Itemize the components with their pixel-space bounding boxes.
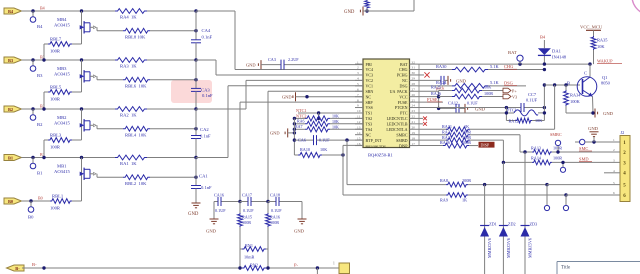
svg-text:100R: 100R (50, 145, 61, 150)
svg-text:RA12: RA12 (509, 118, 519, 123)
svg-text:100R: 100R (50, 206, 61, 211)
svg-text:SMBD: SMBD (396, 138, 407, 143)
svg-text:VC2: VC2 (366, 78, 374, 83)
svg-text:15: 15 (357, 136, 361, 140)
svg-text:12: 12 (357, 120, 361, 124)
svg-text:10K: 10K (332, 114, 339, 119)
svg-text:5: 5 (357, 82, 359, 86)
svg-text:SMD: SMD (579, 156, 589, 161)
capacitor CA12 0.1UF (437, 101, 486, 113)
svg-text:MMBZ5V6: MMBZ5V6 (528, 238, 533, 258)
svg-text:1K: 1K (464, 124, 469, 129)
svg-text:RA14: RA14 (531, 156, 542, 161)
svg-text:0.1UF: 0.1UF (319, 138, 330, 143)
svg-text:TS2: TS2 (366, 116, 373, 121)
title block (557, 262, 640, 274)
op-amp U1 BQ40Z50-R1 body (363, 59, 410, 158)
resistor RA32 100R (418, 129, 521, 137)
wire VCC to divider (418, 91, 441, 109)
svg-text:IN4148: IN4148 (552, 55, 567, 60)
svg-text:5.1K: 5.1K (490, 80, 499, 85)
ground at J2 pin1 (588, 126, 599, 142)
resistor RBL5 100R (42, 85, 81, 111)
svg-text:3: 3 (613, 159, 615, 163)
svg-text:MMBZ5V6: MMBZ5V6 (506, 238, 511, 258)
svg-text:LEDCNTLB: LEDCNTLB (387, 122, 408, 127)
svg-text:BTP_INT: BTP_INT (366, 138, 383, 143)
svg-text:100K: 100K (570, 99, 581, 104)
svg-text:RA25: RA25 (431, 85, 441, 90)
capacitor CC7 0.1UF on PTCEN (418, 92, 547, 112)
U1 pin stubs (355, 64, 419, 145)
ground right of CA18 (280, 202, 307, 234)
svg-text:14: 14 (357, 131, 361, 135)
svg-text:RBL1: RBL1 (52, 194, 64, 199)
svg-text:AO3415: AO3415 (54, 22, 71, 27)
svg-text:DSG: DSG (504, 81, 514, 86)
svg-text:B4: B4 (8, 9, 14, 14)
svg-text:CC7: CC7 (528, 92, 537, 97)
svg-text:32: 32 (412, 60, 416, 64)
U1 pin numbers (357, 60, 415, 145)
wire bottom rail (22, 266, 339, 269)
svg-text:10: 10 (357, 109, 361, 113)
node SMBD circle (560, 161, 565, 173)
svg-text:DA1: DA1 (552, 49, 562, 54)
node B4 pin circle (30, 9, 43, 29)
svg-text:CA1: CA1 (199, 174, 208, 179)
resistor RA14 100R (531, 156, 620, 165)
ground at pin7 (282, 92, 363, 101)
svg-text:PTCEN: PTCEN (395, 105, 408, 110)
node test point on pin6 wire (563, 195, 568, 211)
svg-text:RA15: RA15 (242, 215, 252, 220)
resistor RA7 10K on TS3 (293, 119, 363, 129)
resistor RBL6 10K (97, 77, 198, 88)
svg-text:NC: NC (402, 78, 408, 83)
transistor MB2 AO3415 (54, 107, 97, 140)
svg-text:13: 13 (357, 125, 361, 129)
wire SMBC routing (520, 135, 532, 152)
resistor RA24 5.1K on DSG (418, 80, 527, 88)
wire top gnd to right (367, 0, 414, 11)
svg-text:MB3: MB3 (57, 66, 67, 71)
node B1 pin circle (30, 156, 43, 176)
svg-text:P-: P- (294, 263, 299, 268)
no-connect X pin30 (418, 72, 430, 77)
wire TS1 (298, 111, 363, 120)
svg-text:VC3: VC3 (366, 73, 374, 78)
svg-text:10K: 10K (484, 85, 491, 90)
svg-text:GND: GND (206, 229, 217, 234)
net label WAKUP (597, 58, 622, 63)
svg-text:CA16: CA16 (214, 193, 224, 198)
transistor MB3 AO3415 (54, 58, 97, 92)
wire B3 bus to VC3 (196, 60, 363, 75)
svg-text:100R: 100R (462, 135, 471, 140)
svg-text:RBL8 10K: RBL8 10K (125, 34, 146, 39)
capacitor CA2 (191, 109, 211, 159)
svg-text:CA2: CA2 (200, 127, 209, 132)
svg-text:24: 24 (412, 104, 416, 108)
resistor RA16 100R (266, 202, 280, 269)
no-connect X pin21 (418, 122, 427, 126)
resistor RN2 on rail (242, 262, 266, 270)
svg-text:8050: 8050 (601, 81, 611, 86)
svg-text:31: 31 (412, 66, 416, 70)
svg-text:B-: B- (32, 262, 37, 267)
svg-text:PTC1: PTC1 (507, 108, 517, 113)
wire Q1 base (543, 83, 580, 107)
svg-text:100R: 100R (462, 129, 471, 134)
svg-text:RA9: RA9 (440, 197, 448, 202)
svg-text:19: 19 (412, 131, 416, 135)
svg-text:TS4: TS4 (366, 127, 373, 132)
node B3 pin circle (30, 58, 43, 78)
ground under CA1 (188, 203, 201, 217)
svg-text:DISP: DISP (399, 143, 408, 148)
svg-text:RA35: RA35 (597, 38, 608, 43)
resistor RA33 100R (418, 135, 504, 143)
resistor RA6 10K on TS2 (293, 114, 363, 124)
capacitor CA16 0.1UF (214, 193, 240, 213)
svg-text:BAT: BAT (400, 62, 408, 67)
svg-text:TS1: TS1 (366, 111, 373, 116)
zener diode ZD2 MMBZ5V6 (499, 162, 516, 274)
svg-text:11: 11 (357, 115, 361, 119)
svg-text:GND: GND (246, 62, 256, 67)
resistor RA3 (115, 58, 147, 69)
svg-text:1: 1 (357, 60, 359, 64)
ground in TS network (270, 118, 296, 155)
svg-text:RA13: RA13 (531, 145, 541, 150)
svg-text:AO3415: AO3415 (54, 120, 71, 125)
svg-text:200R: 200R (462, 178, 471, 183)
svg-text:FUSE: FUSE (398, 100, 408, 105)
svg-text:SMBC: SMBC (396, 132, 407, 137)
svg-text:RA1 1K: RA1 1K (120, 161, 137, 166)
svg-text:VC4: VC4 (366, 67, 374, 72)
wire J2 pin4 stub (604, 172, 620, 174)
svg-text:9: 9 (357, 104, 359, 108)
resistor RN1 10mR (242, 243, 266, 260)
node BAT test point (508, 50, 523, 64)
svg-text:MB2: MB2 (57, 115, 67, 120)
port B1 (4, 155, 22, 161)
resistor RA1 (115, 155, 147, 166)
svg-text:GND: GND (270, 131, 280, 136)
port B2 (4, 106, 22, 112)
svg-text:16: 16 (357, 142, 361, 146)
svg-text:100R: 100R (484, 91, 493, 96)
svg-text:2: 2 (357, 66, 359, 70)
svg-text:NC: NC (366, 94, 372, 99)
svg-text:VCC_MCU: VCC_MCU (580, 24, 603, 29)
svg-text:10K: 10K (332, 124, 339, 129)
wire BAT net (418, 62, 592, 65)
svg-text:DISP: DISP (481, 142, 490, 147)
net label NTC2 (296, 114, 306, 119)
svg-text:WAKUP: WAKUP (597, 58, 613, 63)
svg-text:10K: 10K (332, 119, 339, 124)
svg-text:RBL6 10K: RBL6 10K (125, 83, 147, 88)
svg-text:CA3: CA3 (268, 57, 276, 62)
resistor RA4 (115, 9, 147, 20)
svg-text:CA3: CA3 (201, 87, 210, 92)
svg-text:GND: GND (603, 111, 614, 116)
svg-text:PRES/SHUTDN: PRES/SHUTDN (366, 144, 387, 148)
svg-text:RA30: RA30 (436, 64, 447, 69)
net label SMC (579, 146, 592, 151)
svg-text:CHG: CHG (399, 67, 408, 72)
svg-text:10K: 10K (597, 44, 605, 49)
svg-text:B0: B0 (28, 215, 34, 220)
resistor RA26 100R to V3 (431, 91, 503, 99)
svg-text:CA17: CA17 (242, 193, 252, 198)
capacitor CA17 0.1UF (238, 193, 268, 213)
transistor MB1 AO3415 (54, 156, 97, 201)
port B- (7, 265, 25, 271)
svg-text:B4: B4 (37, 24, 43, 29)
svg-text:0.1UF: 0.1UF (526, 97, 538, 102)
wire RA8 row to J2 pin5 (547, 184, 620, 186)
svg-text:18: 18 (412, 136, 416, 140)
ground left of CA16 (206, 202, 219, 234)
capacitor CA6 0.1UF on BTP_INT (293, 135, 363, 145)
svg-text:SRP: SRP (366, 100, 374, 105)
svg-text:MMBZ5V6: MMBZ5V6 (487, 238, 492, 258)
svg-text:ZD3: ZD3 (530, 221, 538, 226)
svg-text:20: 20 (412, 125, 416, 129)
wire SRN (268, 91, 363, 201)
resistor RBL8 10K (97, 28, 198, 39)
svg-text:RBL3: RBL3 (50, 133, 62, 138)
zener diode ZD1 MMBZ5V6 (480, 185, 497, 274)
svg-text:100R: 100R (50, 49, 61, 54)
net label B- (32, 262, 37, 267)
wire drop to RA8 (346, 140, 348, 185)
svg-text:RBL4 10K: RBL4 10K (125, 132, 147, 137)
svg-text:100R: 100R (553, 156, 562, 161)
svg-text:Q1: Q1 (602, 75, 607, 80)
svg-text:6: 6 (613, 191, 615, 195)
svg-text:BQ40Z50-R1: BQ40Z50-R1 (368, 153, 393, 158)
svg-text:NTC1: NTC1 (296, 108, 306, 113)
svg-text:RA6: RA6 (297, 119, 305, 124)
wire SMBD routing (502, 140, 532, 164)
svg-text:CA6: CA6 (298, 138, 306, 143)
svg-text:B-: B- (15, 266, 20, 271)
ground top (344, 7, 369, 16)
wire B4 bus to VC4 (196, 11, 363, 70)
resistor RA13 100R (523, 145, 620, 154)
capacitor at pin29 with ground (418, 76, 467, 85)
annotation arc (632, 0, 640, 15)
svg-text:NC: NC (366, 132, 372, 137)
net label B2 (40, 103, 45, 108)
transistor MB4 AO3415 (54, 9, 97, 44)
svg-text:B: B (567, 80, 570, 85)
net label B1 (40, 152, 45, 157)
svg-text:100R: 100R (50, 97, 61, 102)
svg-text:0.1nF: 0.1nF (201, 185, 212, 190)
svg-text:B0: B0 (38, 195, 43, 200)
svg-text:RA31: RA31 (442, 124, 452, 129)
svg-text:3: 3 (357, 71, 359, 75)
svg-text:8: 8 (357, 98, 359, 102)
net label DISP (479, 142, 495, 148)
node test point on pin5 wire (544, 185, 549, 211)
svg-text:RBL2 10K: RBL2 10K (125, 181, 147, 186)
diode DA1 IN4148 (538, 35, 567, 66)
svg-text:DSG: DSG (399, 84, 407, 89)
resistor RA30 5.1K on CHG (418, 64, 547, 72)
svg-text:MB4: MB4 (57, 17, 67, 22)
svg-text:RA32: RA32 (442, 129, 452, 134)
svg-text:RA36: RA36 (440, 140, 450, 145)
svg-text:B2: B2 (8, 107, 13, 112)
port B0 (4, 198, 22, 204)
svg-text:0.1nF: 0.1nF (200, 133, 211, 138)
svg-text:1: 1 (333, 262, 335, 266)
port B4 (4, 8, 22, 14)
resistor RA34 100K (564, 85, 593, 113)
svg-text:VSS: VSS (366, 105, 373, 110)
svg-text:GND: GND (456, 78, 467, 83)
svg-text:RN2: RN2 (250, 262, 258, 267)
resistor RBL3 100R (42, 133, 81, 160)
svg-text:100R: 100R (462, 140, 471, 145)
svg-text:RA2 1K: RA2 1K (120, 112, 137, 117)
ground at Q1 emitter (591, 97, 613, 118)
svg-text:B4: B4 (40, 5, 45, 10)
svg-text:GND: GND (282, 95, 292, 100)
svg-text:RA10: RA10 (300, 147, 310, 152)
thermistor PTC1 with resistor RA12 10K (418, 108, 547, 124)
svg-text:P+: P+ (512, 88, 517, 93)
svg-text:10K: 10K (320, 147, 327, 152)
zener diode ZD3 MMBZ5V6 (521, 152, 538, 274)
svg-text:30: 30 (412, 71, 416, 75)
resistor RA25 10K to P+ (431, 85, 503, 93)
svg-text:RA26: RA26 (431, 91, 441, 96)
svg-text:29: 29 (412, 77, 416, 81)
power VCC_MCU (580, 24, 603, 36)
svg-text:27: 27 (412, 87, 416, 91)
net label DSG (504, 81, 517, 86)
wire B1 bus to VC1 (196, 86, 363, 158)
connector pad bottom (317, 262, 349, 274)
svg-text:AO3415: AO3415 (54, 71, 71, 76)
svg-text:RA8: RA8 (440, 178, 448, 183)
capacitor CA4 (191, 9, 213, 61)
svg-text:RA4 1K: RA4 1K (120, 14, 137, 19)
svg-text:21: 21 (412, 120, 416, 124)
wire row B3 (22, 59, 197, 61)
net label pack (418, 86, 446, 92)
net label B0 (38, 195, 43, 200)
net label SMD (579, 156, 592, 161)
svg-text:25: 25 (412, 98, 416, 102)
wire RA9 row to J2 pin6 (566, 194, 620, 196)
wire row B4 (22, 10, 197, 12)
svg-text:0.1UF: 0.1UF (215, 208, 226, 213)
svg-text:B4: B4 (540, 35, 546, 40)
resistor RBL4 10K (97, 126, 198, 137)
port V3 (503, 94, 517, 99)
svg-text:SRN: SRN (366, 89, 374, 94)
svg-text:Title: Title (561, 266, 571, 271)
wire drop to RA9 (342, 155, 344, 195)
resistor RA2 (115, 107, 147, 118)
svg-text:10mR: 10mR (244, 255, 254, 260)
resistor RA10 10K on PRES (294, 145, 363, 157)
svg-text:100R: 100R (270, 220, 279, 225)
svg-text:23: 23 (412, 109, 416, 113)
resistor RA36 100R to DISP (418, 140, 479, 148)
resistor RA8 200R (347, 178, 549, 187)
wire collector (584, 64, 590, 77)
svg-text:LEDCNTLC: LEDCNTLC (387, 116, 408, 121)
port P+ (503, 88, 517, 93)
wire J2 pin1 with circle (575, 139, 620, 144)
node SMBC circle (550, 132, 562, 154)
svg-text:100R: 100R (242, 220, 251, 225)
svg-text:B2: B2 (37, 122, 43, 127)
transistor Q1 8050 (567, 75, 611, 97)
svg-text:0.1UF: 0.1UF (243, 208, 254, 213)
svg-text:5: 5 (613, 181, 615, 185)
capacitor CA1 (191, 158, 212, 204)
wire row B0 (22, 200, 82, 202)
svg-text:GND: GND (188, 212, 199, 217)
svg-text:B1: B1 (37, 171, 43, 176)
svg-text:PCHG: PCHG (397, 73, 408, 78)
svg-text:SMBC: SMBC (550, 132, 562, 137)
node B0 pin circle (28, 199, 34, 219)
svg-text:28: 28 (412, 82, 416, 86)
port B3 (4, 57, 22, 63)
resistor RA9 1K (343, 193, 568, 203)
svg-text:LEDCNTLA: LEDCNTLA (386, 127, 407, 132)
resistor RA15 100R (238, 202, 252, 269)
svg-text:RA3 1K: RA3 1K (120, 63, 137, 68)
svg-text:RBL7: RBL7 (50, 37, 62, 42)
svg-text:1K: 1K (462, 197, 467, 202)
net label CHG (504, 64, 517, 69)
resistor top riser (cropped) (365, 0, 369, 9)
svg-text:RA16: RA16 (270, 215, 280, 220)
capacitor CA3 (highlighted) (191, 60, 213, 111)
svg-text:6: 6 (357, 87, 359, 91)
net label P- (294, 263, 299, 268)
svg-text:RA33: RA33 (442, 135, 452, 140)
svg-text:26: 26 (412, 93, 416, 97)
resistor RBL1 100R (50, 181, 82, 211)
svg-text:0.1nF: 0.1nF (202, 93, 213, 98)
svg-text:CA18: CA18 (270, 193, 280, 198)
svg-text:2.2UF: 2.2UF (288, 57, 299, 62)
svg-text:B1: B1 (8, 155, 13, 160)
svg-text:CHG: CHG (504, 64, 514, 69)
svg-text:10K: 10K (535, 118, 542, 123)
node B2 pin circle (30, 107, 43, 127)
resistor RBL7 100R (42, 37, 81, 62)
svg-text:V3: V3 (512, 94, 517, 99)
wire row B1 (22, 157, 197, 159)
svg-text:GND: GND (344, 10, 355, 15)
resistor RA9 10K on TS4 (293, 124, 363, 132)
